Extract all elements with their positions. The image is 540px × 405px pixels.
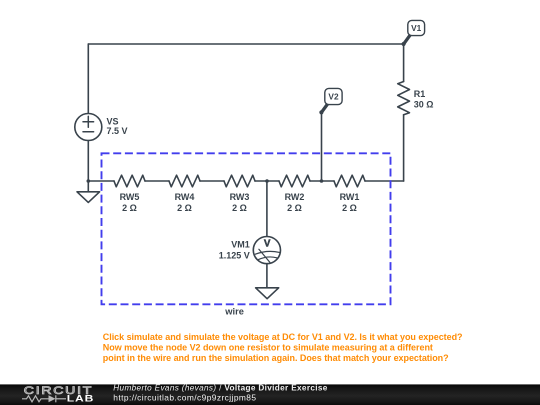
- svg-text:VS: VS: [107, 116, 119, 126]
- svg-text:2 Ω: 2 Ω: [177, 203, 192, 213]
- voltage source VS: [75, 114, 102, 141]
- wire top horizontal: [88, 43, 403, 45]
- node junction VM1 tap: [265, 179, 269, 183]
- wire row segment 1: [88, 180, 114, 182]
- svg-text:Humberto Evans (hevans) / Volt: Humberto Evans (hevans) / Voltage Divide…: [113, 384, 328, 393]
- annotation box (dashed, "wire"): [102, 153, 391, 304]
- wire row segment 3: [200, 180, 224, 182]
- node junction V2 tap: [320, 179, 324, 183]
- svg-text:RW3: RW3: [230, 192, 250, 202]
- voltmeter VM1: [253, 237, 280, 264]
- svg-text:1.125 V: 1.125 V: [219, 250, 250, 260]
- wire from V2 node down: [321, 112, 323, 181]
- resistor RW3: [224, 175, 255, 187]
- resistor RW5: [114, 175, 145, 187]
- wire VM1 bottom lead: [266, 264, 268, 288]
- ground (left, below VS): [77, 181, 100, 202]
- svg-text:RW4: RW4: [175, 192, 195, 202]
- resistor RW4: [169, 175, 200, 187]
- footer bar: [0, 384, 540, 405]
- wire VM1 top lead: [266, 181, 268, 237]
- svg-text:RW2: RW2: [285, 192, 305, 202]
- svg-text:RW5: RW5: [120, 192, 140, 202]
- svg-text:RW1: RW1: [340, 192, 360, 202]
- node flag V2: [319, 88, 342, 114]
- resistor RW1: [334, 175, 365, 187]
- svg-text:wire: wire: [224, 307, 244, 317]
- wire right vertical upper: [403, 44, 405, 82]
- node junction left: [87, 179, 91, 183]
- wire right vertical lower: [403, 115, 405, 181]
- wire row segment 5: [310, 180, 334, 182]
- wire row segment 2: [145, 180, 169, 182]
- svg-text:V2: V2: [328, 91, 339, 101]
- svg-text:point in the wire and run the: point in the wire and run the simulation…: [103, 353, 449, 363]
- logo circuit squiggle (resistor + diode): [22, 395, 66, 402]
- svg-text:2 Ω: 2 Ω: [232, 203, 247, 213]
- svg-text:V1: V1: [411, 23, 422, 33]
- wire row segment 6: [365, 180, 404, 182]
- node flag V1: [404, 20, 425, 43]
- svg-text:30 Ω: 30 Ω: [414, 100, 434, 110]
- svg-text:2 Ω: 2 Ω: [342, 203, 357, 213]
- svg-text:2 Ω: 2 Ω: [122, 203, 137, 213]
- svg-text:V: V: [264, 239, 271, 250]
- wire left vertical upper: [87, 44, 89, 114]
- resistor RW2: [279, 175, 310, 187]
- ground (below VM1): [256, 288, 279, 299]
- svg-text:7.5 V: 7.5 V: [107, 126, 128, 136]
- node junction V1 tap: [402, 42, 406, 46]
- resistor R1: [398, 82, 410, 115]
- svg-text:VM1: VM1: [231, 240, 250, 250]
- svg-text:LAB: LAB: [67, 394, 95, 404]
- svg-text:2 Ω: 2 Ω: [287, 203, 302, 213]
- wire row segment 4: [255, 180, 279, 182]
- svg-text:Click simulate and simulate th: Click simulate and simulate the voltage …: [103, 332, 463, 342]
- svg-text:http://circuitlab.com/c9p9zrcj: http://circuitlab.com/c9p9zrcjjpm85: [113, 393, 256, 403]
- svg-text:R1: R1: [414, 89, 426, 99]
- wire left vertical lower: [87, 141, 89, 182]
- svg-text:Now move the node V2 down one: Now move the node V2 down one resistor t…: [103, 342, 433, 352]
